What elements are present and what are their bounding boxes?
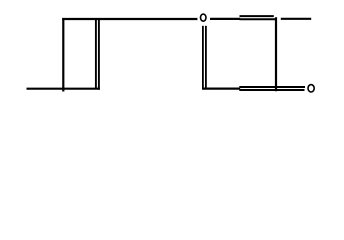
wire bond C-C vertical left: [62, 18, 64, 92]
wire bond C=C and C=O bottom double upper line: [239, 86, 305, 88]
wire bond C=C top right double upper line: [240, 15, 274, 17]
wire bond C=C double vertical left line a: [95, 19, 97, 89]
wire bond O=C double vertical below O line b: [205, 26, 207, 88]
atom O1 label top: [201, 14, 207, 21]
wire bond C=C top right double lower line: [240, 18, 276, 20]
atom O2 label right: [308, 85, 314, 92]
wire bond C=C and C=O bottom double lower line: [239, 89, 304, 91]
wire bond C-C vertical right: [275, 17, 277, 91]
wire bond O=C double vertical below O line a: [202, 26, 204, 90]
wire bond C=C double vertical left line b: [98, 19, 100, 90]
wire bond top horizontal long to O: [62, 18, 197, 20]
wire bond C-C bottom single: [203, 87, 240, 89]
wire bond O-C top right single: [210, 18, 240, 20]
wire bond C-CH3 methyl dash top right: [281, 18, 311, 20]
wire bond CH3-C bottom-left horizontal: [27, 88, 100, 90]
